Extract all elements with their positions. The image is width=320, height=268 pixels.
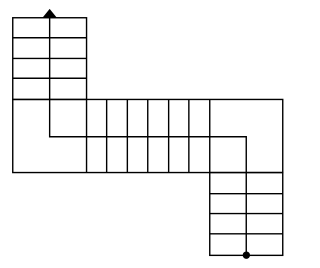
top ladder outline (13, 18, 87, 100)
wire path (50, 18, 247, 256)
node dot (243, 251, 250, 258)
rung band 4 (147, 99, 149, 172)
rung band 1 (86, 99, 88, 172)
rung top ladder 2 (13, 57, 87, 59)
rung top ladder 1 (13, 37, 87, 39)
rung bottom ladder 3 (210, 233, 283, 235)
rung bottom ladder 2 (210, 213, 283, 215)
rung top ladder 3 (13, 77, 87, 79)
rung band 7 (209, 99, 211, 172)
rung band 2 (106, 99, 108, 172)
rung band 5 (168, 99, 170, 172)
rung band 3 (126, 99, 128, 172)
rung bottom ladder 1 (210, 193, 283, 195)
arrow head (42, 9, 57, 18)
middle band outline (13, 99, 283, 172)
rung band 6 (188, 99, 190, 172)
bottom ladder outline (210, 173, 283, 256)
